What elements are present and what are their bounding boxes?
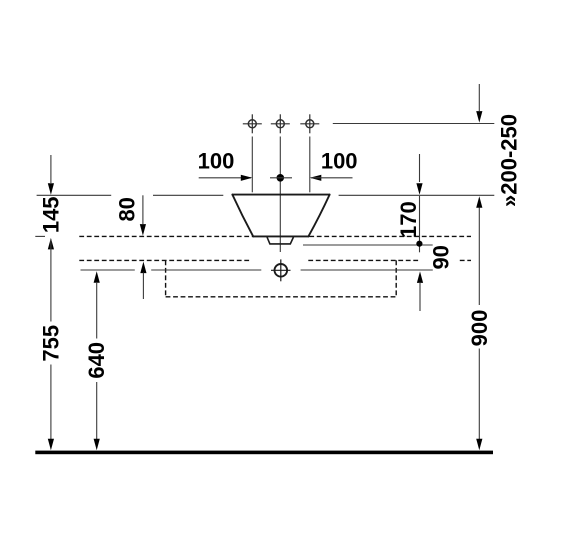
dimension 145 upper arrow	[48, 183, 54, 195]
bowl bottom reference line	[303, 244, 433, 246]
dimension 200-250 upper line	[478, 84, 480, 111]
dimension 900 line lower	[478, 349, 480, 440]
dimension 100 centre dot	[277, 174, 285, 182]
dimension 900 upper arrow	[476, 196, 482, 208]
svg-text:640: 640	[84, 342, 109, 379]
svg-text:170: 170	[396, 201, 421, 238]
dimension 145 lower arrow	[48, 238, 54, 250]
dimension 170 upper line	[419, 154, 421, 182]
dimension 100 centre line	[270, 177, 292, 179]
dimension 640 floor arrow	[94, 439, 100, 451]
svg-text:900: 900	[467, 310, 492, 347]
dimension 80 upper arrow	[140, 224, 146, 236]
dimension 755 floor arrow	[48, 439, 54, 451]
dimension 80 lower arrow	[140, 262, 146, 274]
floor line	[35, 451, 493, 455]
dimension 755 line upper	[50, 240, 52, 322]
dimension 640 line upper	[96, 282, 98, 339]
dimension 145 upper line	[50, 155, 52, 183]
countertop surface dashed line left	[79, 235, 252, 237]
dimension 640 upper arrow	[94, 271, 100, 283]
console dashed outline right side	[395, 260, 397, 296]
faucet height reference line	[333, 123, 495, 125]
svg-text:100: 100	[321, 149, 358, 174]
dimension 900 floor arrow	[476, 439, 482, 451]
washbasin bowl outline	[232, 195, 329, 237]
dimension 170 arrow	[416, 183, 422, 195]
faucet centre drop line left	[251, 137, 253, 193]
dimension 100 left line	[199, 177, 251, 179]
svg-text:80: 80	[115, 197, 140, 221]
svg-text:100: 100	[198, 149, 235, 174]
dimension 170 lower line	[419, 196, 421, 252]
faucet hole symbol right	[300, 114, 319, 133]
console underside dashed line left	[79, 259, 251, 261]
faucet centre drop line right	[309, 137, 311, 193]
svg-text:»200-250: »200-250	[497, 114, 522, 207]
drain outlet symbol	[271, 259, 291, 281]
dimension 100 left arrow	[241, 175, 253, 181]
dimension 90 arrow	[417, 271, 423, 283]
dimension 755 line lower	[50, 365, 52, 440]
dimension 640 line lower	[96, 382, 98, 439]
dimension 90 line	[419, 282, 421, 311]
drain height line right	[301, 269, 433, 271]
basin rim reference line left	[153, 194, 223, 196]
console dashed outline left side	[165, 260, 167, 297]
drain height line centre	[151, 269, 261, 271]
basin rim reference line right	[339, 194, 495, 196]
dimension 900 line upper	[478, 208, 480, 306]
dimension 80 lower line	[142, 273, 144, 300]
countertop surface dashed line right	[309, 235, 471, 237]
dimension 170 end dot	[416, 241, 422, 247]
drain height line left	[81, 269, 135, 271]
faucet hole symbol left	[243, 114, 262, 133]
console underside dashed line middle	[308, 259, 418, 261]
countertop surface left tick	[35, 235, 45, 237]
console underside dashed line right	[460, 259, 471, 261]
dimension 200-250 arrow	[476, 111, 482, 123]
dimension 80 upper line	[142, 195, 144, 224]
basin rim reference line far left	[37, 194, 112, 196]
faucet hole symbol middle	[271, 114, 290, 133]
dimension 100 right arrow	[310, 175, 322, 181]
faucet centre drop line middle	[279, 137, 281, 253]
svg-text:90: 90	[428, 245, 453, 269]
console dashed outline bottom	[166, 296, 397, 298]
svg-text:755: 755	[38, 325, 63, 362]
svg-text:145: 145	[38, 196, 63, 233]
washbasin drain outline	[267, 237, 294, 244]
dimension 100 right line	[311, 177, 353, 179]
